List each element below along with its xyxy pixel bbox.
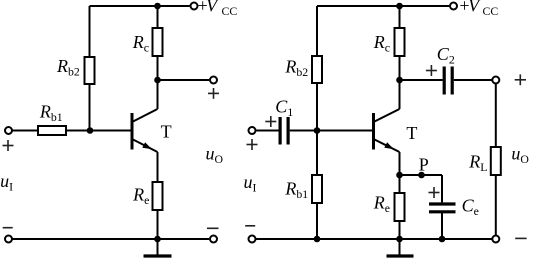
plus sign C1 xyxy=(265,116,276,127)
svg-text:Ce: Ce xyxy=(462,196,479,219)
terminal bottom-left right circuit xyxy=(249,236,256,243)
node Rb1-rail junction xyxy=(314,236,321,243)
node base junction left xyxy=(87,127,94,134)
transistor T right: emitter arrow xyxy=(384,142,394,149)
capacitor C1 xyxy=(279,117,282,145)
wire top rail right circuit xyxy=(317,5,449,7)
resistor Rc left xyxy=(153,28,163,56)
wire Re lower right xyxy=(399,221,401,239)
wire Rb1 branch lower right xyxy=(316,203,318,239)
svg-text:T: T xyxy=(406,123,417,143)
transistor T left: emitter arrow xyxy=(142,142,152,149)
wire output left xyxy=(158,79,210,81)
svg-text:T: T xyxy=(161,122,172,142)
svg-text:Rc: Rc xyxy=(373,32,390,55)
resistor Rb1 left xyxy=(38,126,66,135)
transistor T left: collector stroke xyxy=(133,109,158,122)
resistor Rc right xyxy=(395,28,405,56)
resistor Re left xyxy=(153,182,163,210)
wire input to C1 xyxy=(256,130,279,132)
node collector-rail junction right xyxy=(396,3,403,10)
node Re-rail junction xyxy=(396,236,403,243)
terminal input left circuit xyxy=(5,127,12,134)
wire collector to C2 xyxy=(400,79,443,81)
resistor Rb2 left xyxy=(85,57,95,84)
ground left circuit xyxy=(157,239,159,255)
svg-text:uI: uI xyxy=(244,172,257,195)
wire input to Rb1 xyxy=(13,130,39,132)
wire P row xyxy=(400,174,443,176)
minus sign bottom-right left circuit xyxy=(207,227,219,229)
terminal +VCC left xyxy=(191,3,198,10)
transistor T right: collector stroke xyxy=(375,109,400,122)
svg-text:uI: uI xyxy=(0,171,13,194)
wire Rb1 to base xyxy=(66,130,131,132)
wire C1 to base junction xyxy=(290,130,317,132)
plus sign input right xyxy=(247,139,258,150)
minus sign bottom-left left circuit xyxy=(3,227,13,229)
wire RL lower xyxy=(495,175,497,236)
svg-text:C2: C2 xyxy=(437,44,455,67)
capacitor Ce xyxy=(429,202,456,205)
svg-text:Rb2: Rb2 xyxy=(284,57,308,80)
wire Rc branch upper left xyxy=(157,6,159,28)
wire bottom rail right circuit xyxy=(256,238,493,240)
wire emitter down right xyxy=(399,152,401,175)
svg-text:P: P xyxy=(419,155,429,175)
minus sign bottom-left right circuit xyxy=(245,225,255,227)
wire collector up right xyxy=(399,80,401,109)
wire Ce upper xyxy=(441,175,443,202)
node Ce-rail junction xyxy=(439,236,446,243)
svg-text:Rc: Rc xyxy=(132,32,149,55)
svg-text:uO: uO xyxy=(511,144,529,167)
terminal output top right xyxy=(492,77,499,84)
ground right circuit xyxy=(399,239,401,255)
wire Rc branch lower left xyxy=(157,56,159,80)
wire Rc branch upper right xyxy=(399,6,401,28)
wire Rb2 branch upper xyxy=(89,6,91,57)
transistor T right: emitter stroke xyxy=(375,140,400,153)
wire base right xyxy=(317,130,372,132)
terminal output left xyxy=(210,77,217,84)
wire collector up left xyxy=(157,80,159,109)
transistor T right: base bar xyxy=(372,113,375,150)
resistor RL xyxy=(491,147,501,175)
plus sign input left xyxy=(3,140,14,151)
wire Re to rail left xyxy=(157,210,159,239)
plus sign Ce xyxy=(429,187,440,198)
terminal bottom-right right circuit xyxy=(492,236,499,243)
resistor Re right xyxy=(395,193,405,221)
transistor T left: emitter stroke xyxy=(133,140,158,153)
wire Re upper right xyxy=(399,175,401,193)
terminal bottom-left left circuit xyxy=(5,236,12,243)
terminal input right circuit xyxy=(249,127,256,134)
wire emitter down left xyxy=(157,152,159,182)
wire top rail left circuit xyxy=(90,5,190,7)
svg-text:C1: C1 xyxy=(275,97,293,120)
terminal +VCC right xyxy=(450,3,457,10)
node P xyxy=(418,172,425,179)
minus sign bottom-right right circuit xyxy=(515,237,526,239)
svg-text:Re: Re xyxy=(132,185,149,208)
svg-text:uO: uO xyxy=(206,144,224,167)
transistor T left: base bar xyxy=(131,113,134,150)
wire Rb2 branch lower xyxy=(89,84,91,131)
capacitor C2 xyxy=(443,67,446,95)
svg-text:Rb2: Rb2 xyxy=(56,56,80,79)
wire Rb2 branch upper right xyxy=(316,6,318,56)
svg-text:Rb1: Rb1 xyxy=(39,102,63,125)
plus sign output right xyxy=(515,74,526,85)
resistor Rb1 right xyxy=(312,175,322,203)
svg-text:Re: Re xyxy=(373,192,390,215)
node collector-output junction left xyxy=(154,77,161,84)
wire bottom rail left circuit xyxy=(13,238,210,240)
svg-text:+VCC: +VCC xyxy=(197,0,238,18)
wire Rb2 branch lower right xyxy=(316,83,318,131)
plus sign C2 xyxy=(426,65,437,76)
wire Rc branch lower right xyxy=(399,56,401,80)
terminal bottom-right left circuit xyxy=(210,236,217,243)
node emitter junction P row xyxy=(396,172,403,179)
node base junction right xyxy=(314,127,321,134)
plus sign output left xyxy=(208,88,219,99)
resistor Rb2 right xyxy=(312,56,322,83)
wire RL upper xyxy=(495,84,497,148)
svg-text:Rb1: Rb1 xyxy=(284,179,308,202)
node collector-rail junction left xyxy=(154,3,161,10)
wire Ce lower xyxy=(441,212,443,239)
wire C2 to output terminal xyxy=(454,79,493,81)
wire Rb1 branch upper right xyxy=(316,131,318,176)
svg-text:+VCC: +VCC xyxy=(458,0,498,18)
node emitter-rail junction left xyxy=(154,236,161,243)
node collector-output junction right xyxy=(396,77,403,84)
svg-text:RL: RL xyxy=(468,152,487,175)
